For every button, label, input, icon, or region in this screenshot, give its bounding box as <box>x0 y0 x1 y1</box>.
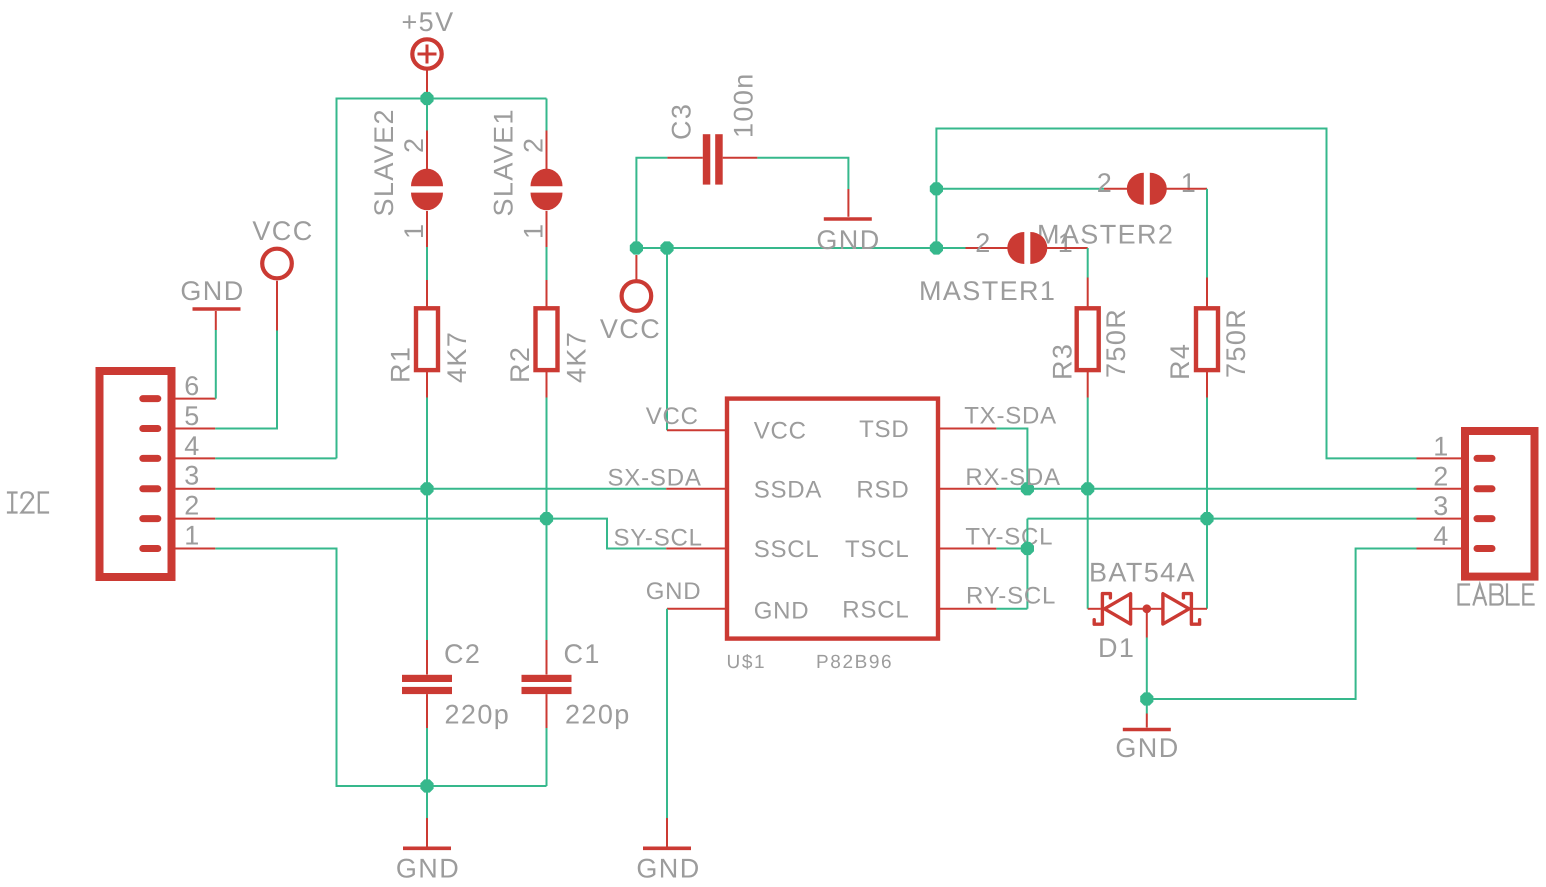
wire R1 bottom to C2 <box>426 370 428 397</box>
svg-text:+5V: +5V <box>402 7 455 37</box>
junction VCC / U1 VCC pin <box>660 241 673 254</box>
ground G3 <box>403 846 451 850</box>
svg-text:TSCL: TSCL <box>845 536 910 563</box>
svg-text:R1: R1 <box>386 346 416 383</box>
pin 2 of I2C <box>176 518 216 520</box>
wire SLAVE2 top <box>426 99 428 131</box>
svg-text:4K7: 4K7 <box>442 331 472 383</box>
wire VCC top rail to CABLE pin1 <box>936 129 1416 459</box>
junction R2 column / SCL row <box>540 512 553 525</box>
svg-text:GND: GND <box>1115 733 1179 763</box>
svg-text:R4: R4 <box>1165 343 1195 380</box>
svg-text:TY-SCL: TY-SCL <box>965 524 1053 551</box>
wire SLAVE1 top <box>546 99 548 131</box>
junction VCC / V2 stem <box>630 241 643 254</box>
pin 1 of CABLE <box>1417 457 1462 459</box>
wire U1 GND pin stem <box>667 608 727 610</box>
junction TSCL / SCL jog column <box>1021 542 1034 555</box>
svg-text:3: 3 <box>1433 491 1449 521</box>
svg-text:R2: R2 <box>505 346 535 383</box>
wire SLAVE2 pin1 to R1 <box>426 211 428 247</box>
svg-text:GND: GND <box>816 225 880 255</box>
label CABLE (vector font) <box>1459 585 1534 605</box>
wire U1 VCC pin stem <box>666 248 668 430</box>
svg-text:SY-SCL: SY-SCL <box>614 525 703 552</box>
jumper MASTER1 <box>1007 232 1047 264</box>
svg-text:GND: GND <box>180 276 244 306</box>
wire MASTER2 pin1 to R4 <box>1164 188 1207 190</box>
ground G4 <box>643 846 691 850</box>
svg-text:2: 2 <box>519 137 549 153</box>
svg-text:VCC: VCC <box>600 314 661 344</box>
ground G5 <box>1123 728 1171 732</box>
svg-text:VCC: VCC <box>252 216 313 246</box>
svg-text:MASTER1: MASTER1 <box>919 276 1056 306</box>
svg-text:U$1: U$1 <box>727 652 767 673</box>
svg-text:R3: R3 <box>1048 343 1078 380</box>
svg-text:2: 2 <box>1097 168 1113 198</box>
pin 1 of I2C <box>176 548 216 550</box>
svg-text:GND: GND <box>646 578 702 605</box>
pin 5 of I2C <box>176 428 216 430</box>
svg-text:750R: 750R <box>1221 308 1251 378</box>
svg-text:1: 1 <box>184 521 200 551</box>
connector I2C <box>100 371 172 577</box>
wire C3 right to ground G2 <box>723 157 758 159</box>
svg-text:SLAVE2: SLAVE2 <box>369 108 399 216</box>
ground G1 <box>193 307 241 311</box>
svg-text:5: 5 <box>184 401 200 431</box>
wire RX-SDA row to CABLE pin2 <box>996 488 1416 490</box>
pin 4 of I2C <box>176 457 216 459</box>
svg-text:1: 1 <box>1181 168 1197 198</box>
wire SCL right row to CABLE pin3 <box>1027 518 1416 520</box>
svg-text:RY-SCL: RY-SCL <box>966 583 1056 610</box>
wire C1 bottom <box>546 694 548 728</box>
resistor R2 <box>536 308 558 370</box>
svg-text:1: 1 <box>399 223 429 239</box>
jumper SLAVE1 <box>531 169 563 211</box>
wire +5V rail with left loop down to I2C pin 4 row <box>337 99 547 459</box>
junction VCC rail / MASTER2 row <box>930 182 943 195</box>
pin RSD stub <box>938 488 996 490</box>
IC U1 P82B96 box <box>727 399 938 639</box>
resistor R1 <box>416 308 438 370</box>
svg-text:6: 6 <box>184 371 200 401</box>
svg-text:1: 1 <box>1058 228 1074 258</box>
diode D1 BAT54A dual schottky <box>1088 594 1207 625</box>
svg-text:C1: C1 <box>564 639 601 669</box>
pin TSD stub and jog to RX-SDA row <box>938 428 996 430</box>
pin 6 of I2C <box>176 398 216 400</box>
svg-text:RX-SDA: RX-SDA <box>965 464 1060 491</box>
supply symbol VCC V1 <box>262 249 292 279</box>
pin TSCL stub <box>938 548 996 550</box>
wire D1 common to gnd junction <box>1146 613 1148 638</box>
wire C2 bottom <box>426 694 428 728</box>
pin 3 of CABLE <box>1417 518 1462 520</box>
svg-text:GND: GND <box>754 598 810 625</box>
capacitor C1 <box>522 675 572 694</box>
svg-text:SLAVE1: SLAVE1 <box>489 108 519 216</box>
wire C3 left to VCC <box>636 158 667 248</box>
label I2C (vector font) <box>8 492 48 512</box>
pin RSCL stub <box>938 608 996 610</box>
wire to ground G3 <box>426 786 428 818</box>
pin SSCL stub <box>666 548 727 550</box>
svg-text:100n: 100n <box>729 72 759 138</box>
pin SSDA stub <box>666 488 727 490</box>
svg-text:220p: 220p <box>445 700 511 730</box>
svg-text:220p: 220p <box>565 700 631 730</box>
wire I2C pin5 to VCC circle V1 <box>215 331 277 429</box>
pin 2 of CABLE <box>1417 488 1462 490</box>
wire R4 bottom to D1 right <box>1206 370 1208 397</box>
svg-text:1: 1 <box>519 223 549 239</box>
junction TSD jog / RX-SDA row <box>1021 482 1034 495</box>
svg-text:P82B96: P82B96 <box>816 652 893 673</box>
svg-text:TSD: TSD <box>859 416 909 443</box>
junction R4 column / SCL right row <box>1200 512 1213 525</box>
svg-text:2: 2 <box>1433 461 1449 491</box>
wire MASTER1 pin1 to R3 <box>1044 247 1088 249</box>
svg-text:C2: C2 <box>444 639 481 669</box>
wire SLAVE1 pin1 to R2 <box>546 211 548 247</box>
junction VCC / top rail <box>930 241 943 254</box>
wire gnd node to CABLE pin4 <box>1147 549 1417 700</box>
wire VCC net center horizontal <box>636 247 936 249</box>
supply symbol +5V <box>412 39 441 68</box>
svg-text:VCC: VCC <box>646 403 699 430</box>
resistor R3 <box>1077 308 1099 370</box>
svg-text:1: 1 <box>1433 432 1449 462</box>
wire MASTER2 pin2 <box>936 188 1104 190</box>
svg-text:750R: 750R <box>1101 308 1131 378</box>
svg-text:TX-SDA: TX-SDA <box>964 403 1057 430</box>
capacitor C3 <box>703 134 723 184</box>
svg-text:4K7: 4K7 <box>562 331 592 383</box>
svg-text:4: 4 <box>184 431 200 461</box>
wire SDA row left (I2C pin3 to SSDA) <box>215 488 666 490</box>
junction +5V rail / SLAVE2 column <box>420 92 433 105</box>
svg-text:C3: C3 <box>667 103 697 140</box>
svg-text:2: 2 <box>184 491 200 521</box>
wire MASTER1 pin2 <box>936 247 965 249</box>
wire R2 bottom to C1 <box>546 370 548 397</box>
capacitor C2 <box>402 675 452 694</box>
svg-text:SSDA: SSDA <box>754 477 823 504</box>
svg-text:2: 2 <box>399 137 429 153</box>
wire V2 stem <box>635 255 637 282</box>
wire I2C pin4 to loop <box>215 457 336 459</box>
jumper MASTER2 <box>1127 173 1167 205</box>
wire I2C pin6 to ground G1 <box>215 330 217 399</box>
pin 3 of I2C <box>176 488 216 490</box>
svg-text:GND: GND <box>636 854 700 884</box>
wire gnd node to ground G5 <box>1146 699 1148 714</box>
svg-text:BAT54A: BAT54A <box>1089 558 1196 588</box>
connector CABLE <box>1465 431 1535 577</box>
wire SCL row left (I2C pin2 to SSCL) <box>215 519 666 549</box>
svg-text:VCC: VCC <box>754 418 807 445</box>
resistor R4 <box>1196 308 1218 370</box>
junction bottom gnd rail <box>420 779 433 792</box>
svg-text:4: 4 <box>1433 521 1449 551</box>
svg-text:RSD: RSD <box>856 476 909 503</box>
wire +5V stem <box>426 71 428 95</box>
wire SCL jog column down to RSCL row <box>1026 519 1028 609</box>
junction R1 column / SDA row <box>420 482 433 495</box>
svg-text:D1: D1 <box>1098 633 1135 663</box>
svg-text:2: 2 <box>975 228 991 258</box>
wire bottom gnd rail / I2C pin1 net <box>215 549 546 787</box>
svg-text:SX-SDA: SX-SDA <box>608 465 702 492</box>
svg-text:3: 3 <box>184 461 200 491</box>
ground G2 <box>824 217 872 221</box>
wire R3 bottom to D1 left <box>1087 370 1089 397</box>
svg-text:RSCL: RSCL <box>842 597 909 624</box>
junction D1 gnd node <box>1140 692 1153 705</box>
svg-text:SSCL: SSCL <box>754 536 820 563</box>
supply symbol VCC V2 <box>622 281 652 311</box>
svg-text:GND: GND <box>396 854 460 884</box>
junction R3 column / RX-SDA row <box>1081 482 1094 495</box>
jumper SLAVE2 <box>411 169 443 211</box>
pin 4 of CABLE <box>1417 548 1462 550</box>
